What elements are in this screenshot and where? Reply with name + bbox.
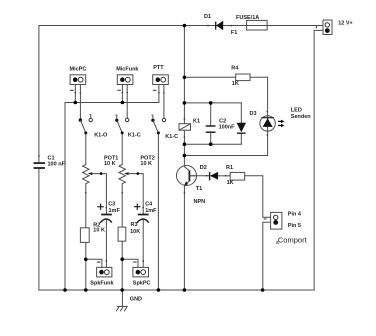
- junction node C2 top: [209, 101, 213, 105]
- connector 12V+: [316, 20, 353, 35]
- junction node R4 branch: [183, 76, 187, 80]
- wire switch3 lever to ground rail: [157, 133, 159, 290]
- junction node top rail to relay column: [183, 24, 187, 28]
- svg-text:100nF: 100nF: [219, 125, 236, 131]
- svg-text:1K: 1K: [227, 180, 234, 186]
- wire R2 junction to SpkFunk pin1: [86, 259, 102, 267]
- wire LED column: [267, 77, 269, 155]
- junction node ground rail R2: [84, 288, 88, 292]
- junction node POT2 wiper wire: [137, 172, 140, 175]
- wire top rail: [39, 25, 323, 27]
- svg-text:D3: D3: [250, 111, 257, 117]
- wire switch1 lever column to POT1: [85, 133, 87, 165]
- junction node ground rail comport pin5: [261, 288, 265, 292]
- wire C2 column: [210, 103, 212, 144]
- junction node POT1 wiper wire: [100, 172, 103, 175]
- svg-text:LED: LED: [291, 107, 302, 113]
- svg-text:MicPC: MicPC: [70, 67, 87, 73]
- resistor R2: [80, 222, 105, 242]
- svg-text:Pin 5: Pin 5: [288, 223, 301, 229]
- wire R3 bottom to ground rail: [121, 241, 123, 290]
- potentiometer POT2: [119, 155, 155, 183]
- wire POT2 wiper to C4: [128, 174, 143, 214]
- wire switch2 lever column to POT2: [121, 133, 123, 165]
- resistor R3: [118, 222, 140, 241]
- transistor T1: [177, 166, 206, 205]
- wire PTT pin1: [158, 85, 160, 103]
- wire left vertical to C1: [38, 26, 40, 163]
- svg-text:1mF: 1mF: [145, 208, 157, 214]
- connector SpkFunk: [90, 262, 114, 287]
- connector PTT: [153, 65, 169, 91]
- connector SpkPC: [133, 262, 151, 287]
- junction node relay top rail: [183, 101, 187, 105]
- svg-text:K1-O: K1-O: [94, 133, 108, 139]
- junction node R3 SpkPC: [120, 257, 124, 261]
- capacitor C1: [34, 156, 66, 168]
- wire bottom ground rail: [39, 289, 314, 291]
- junction node collector LED rail: [183, 154, 187, 158]
- wire MicPC pin2 to switch1: [79, 85, 81, 121]
- connector MicFunk: [116, 67, 139, 91]
- wire comport pin5 to ground rail: [263, 222, 271, 290]
- fuse F1: [236, 15, 267, 30]
- relay coil K1: [179, 119, 200, 131]
- junction node relay bottom rail: [183, 142, 187, 146]
- wire top right rail K1 C2 D3: [184, 102, 241, 104]
- wire R3 junction to SpkPC pin1: [122, 259, 138, 267]
- wire left bus vertical: [64, 103, 66, 291]
- wire right vertical from 12V pin2: [314, 30, 323, 290]
- wire D3 branch: [240, 103, 242, 144]
- svg-text:D2: D2: [200, 165, 207, 171]
- junction node ground rail left bus: [63, 288, 67, 292]
- junction node MicFunk pin1 bus: [121, 101, 125, 105]
- connector Comport Pin4 Pin5: [264, 212, 308, 247]
- diode D2: [200, 165, 218, 180]
- svg-text:T1: T1: [196, 186, 202, 192]
- wire base to D2 R1: [190, 175, 231, 177]
- diode D1: [204, 14, 237, 36]
- junction node ground rail switch3: [157, 288, 161, 292]
- wire R1 to comport pin4: [245, 176, 271, 218]
- junction node R2 SpkFunk: [84, 258, 88, 262]
- LED Senden: [260, 107, 311, 131]
- svg-text:K1-C: K1-C: [128, 133, 141, 139]
- wire C4 bottom to SpkPC: [142, 219, 144, 267]
- potentiometer POT1: [83, 155, 119, 183]
- svg-text:NPN: NPN: [194, 199, 206, 205]
- ground symbol: [116, 290, 142, 311]
- svg-text:a: a: [276, 240, 279, 246]
- wire R2 bottom to ground rail: [85, 242, 87, 290]
- wire relay column lower: [183, 130, 185, 166]
- switch K1-C MicFunk: [115, 115, 141, 139]
- switch K1-O: [79, 114, 108, 138]
- diode D3: [237, 111, 257, 133]
- wire R4 branch: [184, 76, 267, 78]
- wire PTT pin2 to switch3 throw: [163, 85, 165, 119]
- wire left bus horizontal: [65, 102, 159, 104]
- svg-text:F1: F1: [231, 30, 237, 36]
- svg-text:C4: C4: [145, 201, 153, 207]
- wire mid right rail: [184, 143, 241, 145]
- svg-text:10K: 10K: [130, 229, 140, 235]
- wire C1 bottom to ground rail: [38, 169, 40, 290]
- svg-text:10 K: 10 K: [140, 161, 152, 167]
- wire MicFunk pin2 to switch2 throw: [126, 85, 128, 119]
- svg-text:GND: GND: [130, 297, 142, 303]
- junction node ground rail GND stem: [120, 288, 124, 292]
- junction node ground rail emitter: [183, 288, 187, 292]
- svg-text:1K: 1K: [232, 81, 239, 87]
- svg-text:SpkPC: SpkPC: [133, 281, 151, 287]
- resistor R1: [226, 165, 245, 186]
- svg-text:10 K: 10 K: [93, 228, 105, 234]
- svg-text:SpkFunk: SpkFunk: [90, 281, 114, 287]
- wire MicFunk pin1: [121, 85, 123, 103]
- resistor R4: [231, 65, 250, 87]
- svg-text:MicFunk: MicFunk: [116, 67, 139, 73]
- svg-text:Senden: Senden: [291, 114, 312, 120]
- wire emitter to ground rail: [183, 185, 185, 290]
- switch K1-C PTT: [151, 115, 178, 140]
- wire POT2 bottom to R3: [121, 184, 123, 227]
- svg-text:K1: K1: [193, 119, 200, 125]
- svg-text:Pin 4: Pin 4: [288, 212, 302, 218]
- wire LED bottom rail: [184, 155, 267, 157]
- svg-text:R3: R3: [131, 222, 138, 228]
- svg-text:1mF: 1mF: [109, 208, 121, 214]
- svg-text:D1: D1: [204, 14, 211, 20]
- svg-text:FUSE/1A: FUSE/1A: [236, 15, 259, 21]
- capacitor C3: [97, 201, 120, 223]
- pin tick marks: [38, 25, 268, 262]
- wire C3 bottom to SpkFunk: [105, 219, 107, 267]
- svg-text:R4: R4: [231, 65, 239, 71]
- capacitor C4: [134, 201, 157, 223]
- capacitor C2: [206, 119, 235, 133]
- junction node C2 bottom: [209, 142, 213, 146]
- svg-text:C3: C3: [108, 201, 115, 207]
- svg-text:10 K: 10 K: [104, 161, 116, 167]
- svg-text:R1: R1: [226, 165, 233, 171]
- svg-text:Comport: Comport: [278, 236, 308, 245]
- wire POT1 bottom to R2: [85, 184, 87, 228]
- svg-text:100 nF: 100 nF: [48, 162, 66, 168]
- connector MicPC: [70, 67, 87, 91]
- wire MicPC pin1: [74, 85, 76, 103]
- svg-text:K1-C: K1-C: [165, 134, 178, 140]
- svg-text:12 V+: 12 V+: [338, 21, 353, 27]
- junction node MicPC pin1 bus: [74, 101, 78, 105]
- svg-text:PTT: PTT: [153, 65, 164, 71]
- wire relay column upper: [183, 26, 185, 124]
- wire POT1 wiper to C3: [92, 174, 107, 214]
